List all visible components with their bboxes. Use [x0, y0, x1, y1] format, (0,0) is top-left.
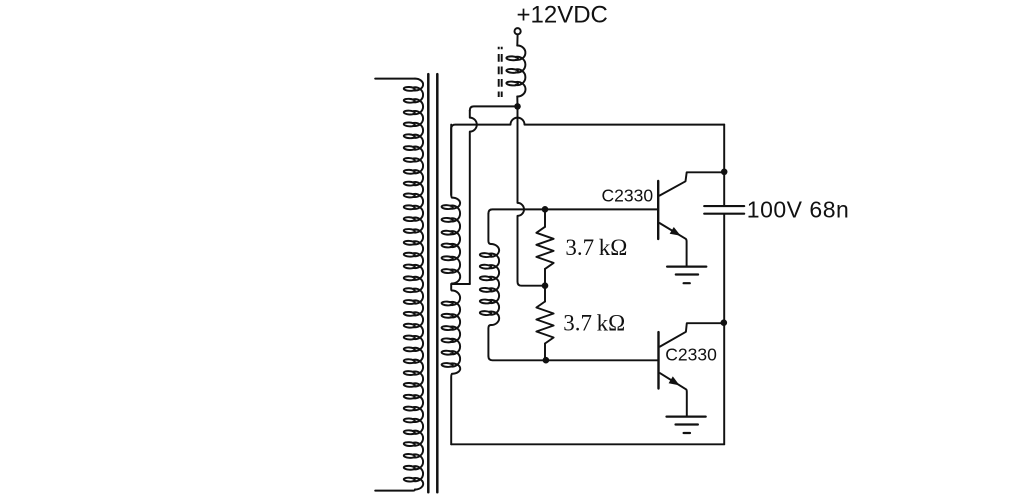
svg-text:C2330: C2330 [665, 345, 717, 365]
ground symbol Q2 bar1 [667, 416, 706, 418]
svg-text:3.7 kΩ: 3.7 kΩ [563, 311, 625, 336]
terminal +12VDC input [515, 28, 521, 34]
transistor Q1 collector [660, 172, 725, 195]
resistor R1 3.7k lead bottom [544, 269, 546, 286]
transistor Q2 base bar [657, 332, 659, 388]
node F Q2 collector junction [721, 319, 728, 326]
transformer T1 feedback winding top lead [488, 213, 491, 244]
resistor R2 3.7k lead top [544, 286, 546, 302]
bottom rail wire [451, 443, 724, 445]
ground symbol Q1 bar2 [676, 273, 698, 275]
svg-text:C2330: C2330 [602, 185, 654, 205]
node A choke output junction [514, 103, 521, 110]
node B resistor R1 top junction [542, 206, 549, 213]
transistor Q2 emitter [660, 373, 687, 416]
transistor Q1 emitter arrow [670, 227, 681, 236]
wire vertical to primary center tap (hops over top rail) [470, 110, 477, 284]
ground symbol Q2 bar3 [684, 432, 690, 434]
wire choke bottom lead [516, 97, 518, 107]
transistor Q2 emitter arrow [669, 376, 680, 385]
right rail upper segment [723, 125, 725, 206]
transistor Q2 collector [660, 323, 724, 346]
inductor L1 choke [506, 45, 525, 96]
capacitor C1 bottom plate [704, 213, 744, 215]
capacitor C1 top plate [704, 205, 744, 207]
svg-text:3.7 kΩ: 3.7 kΩ [565, 235, 627, 260]
svg-text:100V 68n: 100V 68n [747, 196, 849, 222]
transformer T1 primary center tap junction [450, 284, 453, 291]
transistor Q1 emitter [660, 223, 687, 266]
transformer T1 feedback winding [480, 244, 499, 325]
transistor Q1 base bar [657, 181, 659, 239]
transformer T1 primary lower half winding [441, 291, 460, 374]
transformer T1 core line 2 [436, 74, 439, 492]
wire Q2 base line [488, 356, 657, 360]
wire center tap horizontal [451, 283, 470, 285]
choke core dashed lines [498, 47, 500, 97]
right rail lower segment [723, 215, 725, 445]
ground symbol Q2 bar2 [676, 423, 698, 425]
transformer T1 secondary winding [404, 79, 424, 490]
transformer T1 secondary winding top lead [375, 78, 415, 80]
ground symbol Q1 bar1 [667, 266, 706, 268]
resistor R2 3.7k body [536, 302, 553, 344]
top rail wire (with hop over vertical wire) [451, 118, 724, 195]
wire node A down to resistor midpoint (hops over Q1 base line) [518, 106, 546, 285]
resistor R2 3.7k lead bottom [544, 344, 546, 361]
node E Q1 collector junction [721, 169, 728, 176]
wire node A to center-tap drop [470, 106, 518, 110]
transformer T1 secondary winding bottom lead [375, 490, 415, 491]
transformer T1 primary lower half lead to bottom rail [450, 374, 453, 445]
node C resistor midpoint junction [542, 282, 549, 289]
svg-text:+12VDC: +12VDC [517, 2, 608, 29]
transformer T1 feedback winding bottom lead [488, 325, 491, 356]
wire terminal to choke [516, 34, 518, 45]
resistor R1 3.7k lead top [544, 209, 546, 227]
transformer T1 primary upper half winding [441, 198, 460, 284]
transformer T1 core line 1 [427, 74, 430, 492]
wire Q1 base line [488, 209, 657, 213]
node D resistor R2 bottom junction [543, 357, 550, 364]
ground symbol Q1 bar3 [684, 282, 690, 284]
resistor R1 3.7k body [536, 227, 553, 269]
transformer T1 primary upper half lead from top rail [450, 125, 453, 198]
